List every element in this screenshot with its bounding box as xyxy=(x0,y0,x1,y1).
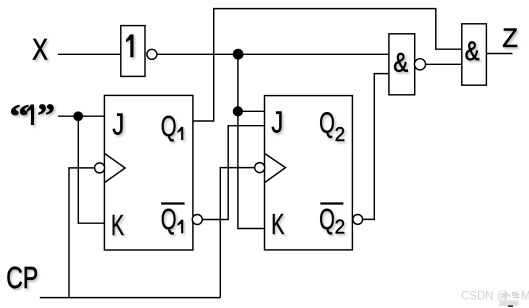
svg-text:“: “ xyxy=(9,98,29,135)
svg-text:Q: Q xyxy=(319,203,335,235)
svg-text:2: 2 xyxy=(335,124,346,147)
svg-text:Z: Z xyxy=(502,23,518,54)
svg-text:Q: Q xyxy=(319,107,335,139)
svg-text:2: 2 xyxy=(335,216,346,239)
svg-text:Q: Q xyxy=(161,203,177,235)
svg-text:K: K xyxy=(271,210,285,242)
svg-text:J: J xyxy=(271,105,283,140)
svg-text:Q: Q xyxy=(161,111,177,143)
svg-text:M: M xyxy=(521,291,529,303)
svg-text:&: & xyxy=(393,49,408,79)
svg-text:J: J xyxy=(112,107,124,142)
svg-text:K: K xyxy=(111,211,125,243)
svg-text:CP: CP xyxy=(6,260,38,295)
svg-text:X: X xyxy=(32,33,48,66)
svg-text:&: & xyxy=(465,37,480,67)
svg-text:”: ” xyxy=(37,98,55,133)
